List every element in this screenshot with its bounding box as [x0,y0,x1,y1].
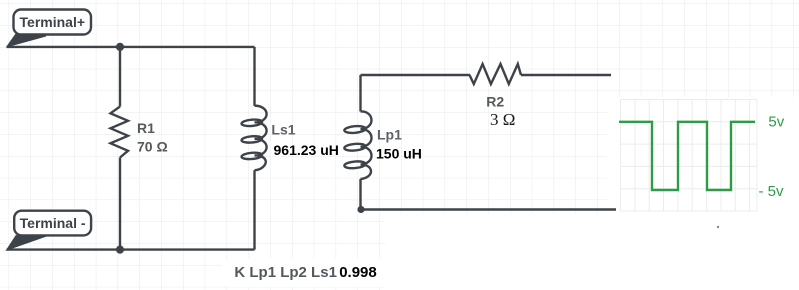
inductor Lp1 [344,111,371,179]
svg-text:Terminal+: Terminal+ [20,14,86,30]
resistor R1 [111,107,129,158]
wire: bottom wire middle loop [361,208,617,210]
node B junction dot bottom [116,246,124,254]
callout Terminal- tail [7,236,48,250]
svg-text:R2: R2 [486,94,504,110]
wire: Ls1 branch lower lead [253,170,255,249]
svg-text:150 uH: 150 uH [376,145,422,161]
wire: Lp1 left vertical upper lead [359,75,361,112]
svg-text:0.998: 0.998 [339,264,377,281]
svg-text:Terminal -: Terminal - [20,215,86,231]
wire: Lp1 lower lead [359,179,361,210]
svg-text:Lp1: Lp1 [377,127,402,143]
wire: bottom wire of left loop [7,248,255,250]
inductor Ls1 [241,106,266,171]
svg-text:R1: R1 [137,120,155,136]
wire: top wire middle loop left of R2 [361,74,471,76]
scope graticule [621,100,758,212]
svg-text:Ls1: Ls1 [271,122,295,138]
scope panel [607,97,799,214]
wire: top wire of left loop [7,46,255,48]
svg-text:- 5v: - 5v [759,183,785,200]
white label halo behind K text [222,258,386,287]
callout Terminal+ tail [7,34,46,47]
wire: Ls1 branch upper lead [253,47,255,106]
wire: R1 branch upper lead [119,47,121,107]
svg-text:3 Ω: 3 Ω [490,110,515,129]
scope trace square wave [619,122,755,190]
callout Terminal- bubble [14,211,91,236]
callout Terminal+ bubble [14,10,92,35]
wire: R1 branch lower lead [119,158,121,250]
svg-text:K Lp1 Lp2 Ls1: K Lp1 Lp2 Ls1 [234,264,337,281]
svg-text:5v: 5v [768,113,784,130]
speck [717,226,719,228]
node C junction dot bottom corner [357,206,364,213]
svg-text:961.23 uH: 961.23 uH [274,142,339,158]
node A junction dot top [116,43,124,51]
svg-text:70 Ω: 70 Ω [137,139,168,155]
wire: top wire right of R2 [521,74,611,76]
resistor R2 [470,64,522,84]
white mask lower right [385,214,799,290]
